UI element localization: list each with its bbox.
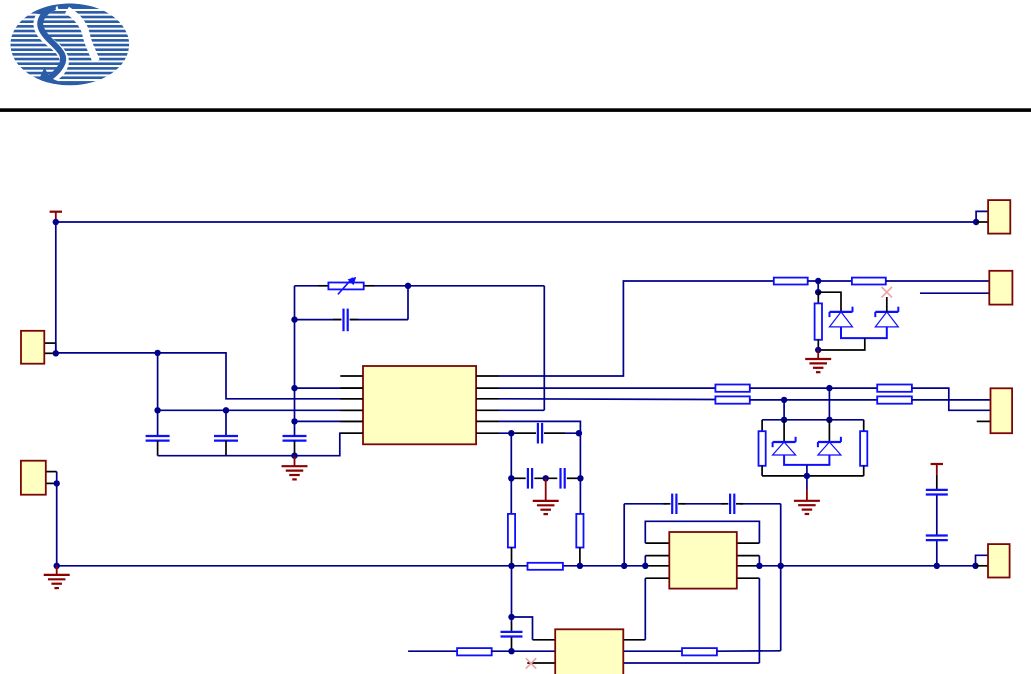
connector J3 — [988, 544, 1010, 577]
pin J6-3 stub — [977, 420, 991, 422]
connector J5 — [989, 271, 1012, 305]
resistor R13 — [576, 514, 583, 566]
power flag VCC2 — [931, 464, 943, 475]
capacitor C11 — [721, 494, 743, 514]
header rule — [0, 108, 1031, 112]
junction row3a — [826, 385, 832, 391]
wire zener2 anodes — [784, 455, 829, 476]
wire row3b mid — [750, 399, 877, 401]
resistor R8 — [682, 648, 717, 655]
zener D3 — [773, 420, 796, 455]
junction R9 bottom — [815, 347, 821, 353]
junction rail R13 — [577, 563, 583, 569]
junction RV row — [405, 283, 411, 289]
junction top rail left — [53, 219, 59, 225]
junction rail xtal-a — [621, 563, 627, 569]
wire IC R6 row — [499, 432, 580, 434]
zener D1 — [830, 307, 853, 327]
resistor R7 — [457, 648, 492, 655]
wire row2 mid — [808, 280, 852, 282]
junction IC pin L5 — [291, 418, 297, 424]
wire top VCC rail — [56, 222, 976, 353]
wire left drop x511 — [510, 433, 512, 514]
resistor R4 — [715, 396, 749, 403]
pin U1-R4 stub — [476, 409, 499, 411]
pin U1-R6 stub — [476, 432, 499, 434]
capacitor C10 — [664, 494, 686, 514]
wire D4 drop — [783, 400, 785, 420]
junction rail xtal-b — [642, 563, 648, 569]
wire D3 drop — [828, 388, 830, 420]
wire row3b to J6 — [912, 399, 991, 401]
connector J2 — [21, 461, 46, 495]
junction C1 top — [154, 407, 160, 413]
capacitor C3 — [283, 436, 307, 456]
pin U1-L1 stub — [340, 375, 363, 377]
wire right drop x580 — [579, 433, 581, 514]
pin U1-R5 stub — [476, 420, 499, 422]
resistor R9 — [815, 292, 822, 350]
company logo (striped blue globe with S swoosh) — [0, 3, 140, 86]
wire J3 pin jog — [976, 555, 989, 566]
wire D2 top — [886, 297, 888, 312]
wire decoupling gnd rail — [158, 433, 363, 456]
junction rail xtal-d — [778, 563, 784, 569]
wire IC pin L5 row — [295, 420, 364, 422]
wire RV net down to IC pin R4 — [499, 286, 544, 411]
junction C12 top — [508, 614, 514, 620]
wire tap to D1 — [818, 292, 841, 312]
capacitor C8 — [926, 490, 948, 495]
junction R6b — [576, 430, 582, 436]
zener D2 — [875, 307, 898, 327]
wire J1 pins jog — [44, 343, 56, 353]
wire zener2 top rail — [762, 419, 864, 421]
wire cap row x478 — [511, 477, 580, 479]
wire IC R2 row — [499, 387, 715, 389]
wire U2 L1 jog — [512, 617, 556, 640]
wire row3a to J6 — [912, 388, 991, 410]
wire xtal left vert — [623, 504, 625, 566]
wire U2 R1 up — [623, 639, 645, 641]
wire J2 to rail — [56, 483, 58, 565]
junction c56 right — [577, 475, 583, 481]
wire zener tap — [817, 281, 819, 292]
wire row3a mid — [750, 387, 877, 389]
pin U2-L3 stub — [527, 662, 555, 664]
pin U1-L5 stub — [340, 420, 363, 422]
wire J5 pin2 stub — [920, 292, 989, 294]
junction zener2 gnd — [804, 473, 810, 479]
junction rail xtal-c — [756, 563, 762, 569]
capacitor C12 — [501, 632, 523, 637]
wire J1 to IC pin L3 — [56, 353, 363, 399]
capacitor C4 — [515, 423, 565, 444]
wire IC pin L2 row — [295, 387, 364, 389]
ground GND1 — [282, 456, 308, 480]
junction c56 mid — [543, 475, 549, 481]
connector J4 — [988, 200, 1010, 234]
junction IC pin L2 — [291, 385, 297, 391]
pin U1-L6 stub — [340, 432, 363, 434]
junction R6a — [508, 430, 514, 436]
zener D4 — [818, 420, 841, 455]
junction rail R12 — [508, 563, 514, 569]
wire U2 input — [408, 650, 457, 652]
wire C5 row — [295, 286, 409, 320]
capacitor C9 — [926, 536, 948, 541]
ground GND2 — [805, 350, 831, 372]
resistor R5 — [877, 385, 912, 392]
pin Y1-L4 stub — [645, 578, 669, 640]
junction C2 top — [223, 407, 229, 413]
ground GND4 — [533, 478, 559, 514]
pin U1-L4 stub — [340, 409, 363, 411]
junction rail C9 — [934, 563, 940, 569]
wire bottom rail — [57, 565, 976, 567]
junction row2 — [815, 278, 821, 284]
pin Y1-R2 stub — [737, 556, 760, 566]
resistor R12 — [508, 514, 515, 566]
pin Y1-L2 stub — [645, 556, 669, 566]
junction U2 L2 — [508, 648, 514, 654]
resistor R1 — [774, 278, 808, 285]
pin U1-R3 stub — [476, 398, 499, 400]
wire xtal top loop — [645, 521, 759, 543]
capacitor C5 — [333, 309, 358, 332]
pin Y1-L1 stub — [645, 542, 669, 544]
power flag VCC1 — [50, 212, 62, 222]
capacitor C1 — [146, 410, 170, 455]
wire R8 right — [717, 650, 781, 652]
junction C3 bottom — [291, 453, 297, 459]
capacitor C2 — [214, 410, 238, 455]
wire xtal cap row — [624, 503, 781, 505]
wire node A down to L4 row — [157, 353, 159, 410]
wire IC R5 — [499, 421, 580, 433]
capacitor C6 — [528, 468, 532, 489]
no-erc cross X2 — [526, 658, 536, 668]
resistor R11 — [860, 420, 867, 476]
pin U1-L3 stub — [340, 398, 363, 400]
wire xtal right vert — [780, 504, 782, 651]
junction zener tap — [815, 289, 821, 295]
junction row3b — [781, 397, 787, 403]
no-erc cross X1 — [882, 287, 892, 297]
resistor R2 — [852, 278, 886, 285]
junction rail J3 — [972, 563, 978, 569]
capacitor C7 — [561, 468, 565, 489]
pin U1-L2 stub — [340, 387, 363, 389]
wire IC R1 up to row2 — [499, 281, 774, 376]
junction c56 left — [508, 475, 514, 481]
resistor R3 — [715, 385, 749, 392]
connector J6 — [991, 388, 1013, 433]
junction at connector J4 — [973, 219, 979, 225]
resistor RV1 (variable) — [328, 277, 363, 295]
ground GND3 — [794, 476, 820, 514]
resistor R10 — [759, 420, 766, 476]
pin Y1-R4 stub — [737, 578, 760, 663]
junction J1 pin2 — [53, 350, 59, 356]
pin U1-R1 stub — [476, 375, 499, 377]
osc block U2 — [555, 629, 623, 674]
junction fb cap row — [291, 316, 297, 322]
crystal module Y1 — [669, 532, 737, 589]
wire IC pin L4 row — [158, 409, 363, 411]
wire U2 R2 row — [623, 650, 682, 652]
junction z2a — [781, 417, 787, 423]
junction z2b — [826, 417, 832, 423]
wire feedback left vertical — [294, 286, 296, 436]
pin Y1-R1 stub — [737, 542, 760, 544]
junction J2 pin2 — [54, 480, 60, 486]
pin U1-R2 stub — [476, 387, 499, 389]
wire zener2 bottom rail — [762, 475, 864, 477]
wire R7 to U2 — [492, 650, 556, 652]
wire row2 to J5 — [886, 280, 990, 282]
resistor R6 — [877, 396, 912, 403]
wire J4 pin jog — [976, 211, 988, 222]
junction J2 rail — [54, 563, 60, 569]
wire VCC2 down — [936, 475, 938, 566]
connector J1 — [21, 331, 44, 364]
ground GND5 — [44, 566, 70, 588]
wire J2 pins jog — [46, 472, 57, 484]
junction node A — [154, 350, 160, 356]
ic U1 — [363, 366, 476, 444]
wire IC R3 row — [499, 398, 715, 401]
wire D1 D2 anodes — [818, 327, 887, 350]
wire C12 tap — [511, 566, 513, 651]
wire RV top row — [295, 285, 545, 287]
resistor R14 — [528, 563, 563, 570]
wire U2 R3 row — [623, 662, 759, 664]
